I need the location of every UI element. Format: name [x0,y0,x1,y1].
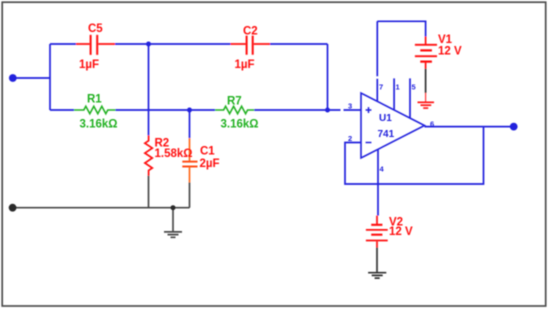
svg-text:3.16kΩ: 3.16kΩ [221,119,259,131]
svg-text:V1: V1 [438,34,453,46]
svg-text:7: 7 [379,83,383,92]
svg-text:6: 6 [430,119,434,128]
svg-text:4: 4 [380,165,385,174]
svg-text:2µF: 2µF [200,158,220,170]
svg-text:12 V: 12 V [389,226,413,238]
svg-text:12 V: 12 V [438,46,462,58]
svg-text:C5: C5 [88,23,103,35]
svg-text:1.58kΩ: 1.58kΩ [155,148,193,160]
svg-text:C1: C1 [200,146,215,158]
svg-text:5: 5 [412,83,416,92]
svg-text:741: 741 [378,129,395,140]
svg-text:R1: R1 [87,94,102,106]
svg-text:C2: C2 [243,26,258,38]
svg-text:U1: U1 [379,113,392,124]
svg-text:R7: R7 [227,96,242,108]
svg-text:1µF: 1µF [235,59,255,71]
svg-text:3.16kΩ: 3.16kΩ [80,119,118,131]
svg-text:3: 3 [348,102,352,111]
svg-text:2: 2 [348,134,352,143]
svg-text:1: 1 [396,83,400,92]
svg-text:1µF: 1µF [79,59,99,71]
